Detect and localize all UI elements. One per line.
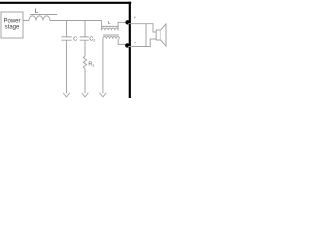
svg-text:C: C xyxy=(73,36,77,42)
svg-text:z: z xyxy=(92,62,94,67)
svg-text:z: z xyxy=(93,37,95,42)
svg-text:L: L xyxy=(108,20,111,26)
svg-text:L: L xyxy=(35,8,39,15)
svg-text:−: − xyxy=(134,40,137,45)
svg-text:stage: stage xyxy=(5,25,20,31)
svg-text:+: + xyxy=(134,15,137,20)
